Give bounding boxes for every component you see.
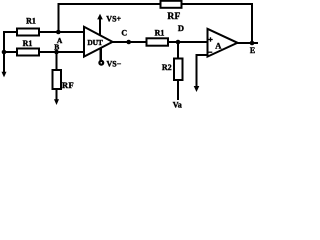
- amp minus sign: [208, 51, 212, 53]
- wire resistor R1 bottom to node B and DUT: [39, 51, 84, 53]
- wire top feedback rail: [59, 3, 253, 5]
- wire resistor R1 top to node A and DUT: [39, 31, 84, 33]
- wire top-left input branch: [4, 32, 17, 33]
- wire DUT output to amp A plus input: [111, 41, 208, 43]
- node C junction dot: [126, 40, 131, 45]
- resistor R1 bottom-left: [17, 49, 39, 56]
- svg-text:VS−: VS−: [107, 60, 122, 69]
- svg-text:Va: Va: [173, 101, 182, 110]
- VS- terminal circle: [99, 61, 103, 65]
- op-amp DUT: [84, 27, 113, 57]
- wire amp A minus input to ground: [197, 55, 208, 87]
- VS+ power arrow: [97, 14, 103, 20]
- svg-text:RF: RF: [167, 12, 180, 22]
- op-amp A: [208, 29, 238, 57]
- svg-text:VS+: VS+: [106, 15, 121, 24]
- wire VS+ stem: [99, 19, 101, 36]
- svg-text:C: C: [121, 28, 127, 37]
- junction dot left bottom: [2, 50, 7, 55]
- svg-text:R1: R1: [26, 16, 36, 25]
- svg-text:R1: R1: [23, 39, 33, 48]
- ground arrow below RF: [54, 99, 59, 105]
- resistor R1 top-left: [17, 29, 39, 36]
- node E junction dot: [250, 41, 255, 46]
- svg-text:A: A: [215, 41, 222, 51]
- wire bottom-left input branch: [4, 51, 17, 53]
- svg-text:RF: RF: [62, 80, 74, 90]
- wire VS- stem: [100, 48, 102, 61]
- wire left vertical with ground stem: [3, 32, 5, 72]
- wire amp A output to node E: [237, 42, 257, 44]
- svg-text:DUT: DUT: [87, 38, 102, 47]
- ground arrow amp A minus: [194, 86, 200, 92]
- resistor RF top: [161, 1, 182, 8]
- wire node B down to RF: [55, 52, 57, 71]
- wire right vertical from rail to node E: [251, 4, 253, 43]
- svg-text:R1: R1: [155, 29, 165, 38]
- ground arrow left: [2, 72, 7, 78]
- wire RF to bottom arrow: [55, 89, 57, 100]
- resistor R1 right: [147, 38, 169, 45]
- svg-text:B: B: [54, 42, 59, 51]
- wire left vertical from rail to node A: [57, 4, 59, 32]
- node A junction dot: [56, 30, 61, 35]
- amp plus sign: [208, 39, 212, 41]
- wire node D down to R2: [177, 42, 179, 59]
- resistor RF vertical: [53, 70, 62, 89]
- svg-text:R2: R2: [162, 63, 172, 72]
- svg-text:E: E: [250, 46, 255, 55]
- resistor R2 vertical: [174, 59, 183, 81]
- node B junction dot: [54, 50, 59, 55]
- node D junction dot: [176, 40, 181, 45]
- svg-text:D: D: [178, 23, 184, 33]
- wire R2 to Va terminal: [177, 80, 179, 100]
